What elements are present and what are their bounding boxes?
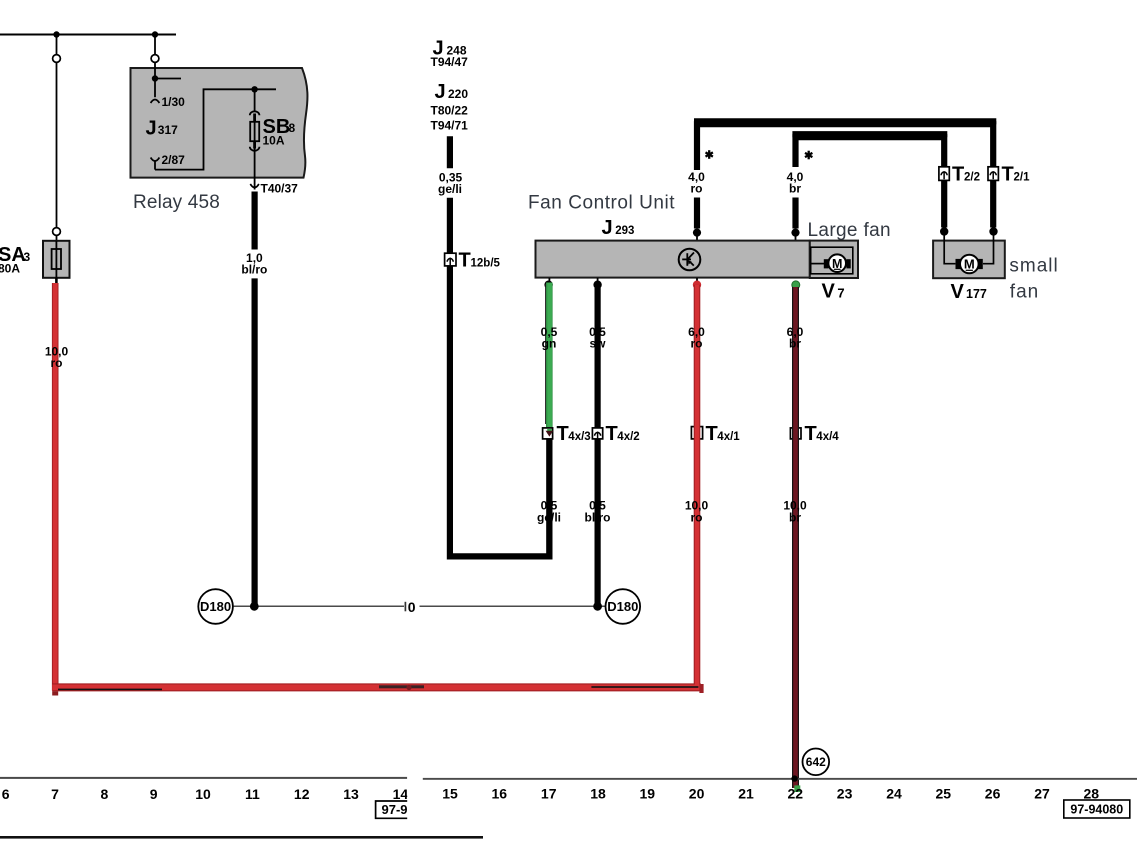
svg-text:T: T bbox=[1002, 164, 1014, 186]
node: ro terminal bbox=[693, 229, 701, 237]
contact 2/87 bbox=[151, 158, 160, 162]
wire to motor bbox=[810, 263, 824, 265]
node: SB8 top junction bbox=[251, 86, 257, 92]
svg-text:2/2: 2/2 bbox=[964, 172, 980, 184]
ground D180 left bbox=[198, 589, 233, 624]
node: small fan right terminal bbox=[989, 227, 997, 235]
svg-text:T94/71: T94/71 bbox=[431, 119, 469, 133]
symbol K (thermo control) bbox=[679, 249, 701, 271]
svg-text:bl/ro: bl/ro bbox=[585, 511, 611, 525]
svg-text:bl/ro: bl/ro bbox=[241, 263, 267, 277]
motor V7 bbox=[828, 254, 846, 272]
svg-text:24: 24 bbox=[886, 786, 902, 802]
svg-text:12b/5: 12b/5 bbox=[471, 258, 501, 270]
wire: SA3 bottom stub bbox=[55, 278, 58, 284]
wire: black line under red horizontal (left) bbox=[58, 689, 162, 691]
svg-text:ro: ro bbox=[691, 337, 703, 351]
terminal T40/37 bbox=[254, 178, 256, 190]
ruler numbers right bbox=[442, 786, 1099, 802]
wire 0,5 gn (green) bbox=[548, 278, 550, 281]
small fan box V177 bbox=[933, 241, 1005, 279]
svg-text:sw: sw bbox=[589, 337, 606, 351]
svg-text:8: 8 bbox=[289, 121, 296, 135]
svg-text:11: 11 bbox=[245, 786, 260, 802]
connector T2/1 bbox=[988, 167, 998, 181]
fuse SA3 box bbox=[43, 241, 70, 278]
svg-text:br: br bbox=[789, 337, 801, 351]
wire 0,5 sw (black) bbox=[597, 278, 599, 281]
svg-text:4x/3: 4x/3 bbox=[568, 431, 590, 443]
svg-text:T80/22: T80/22 bbox=[431, 104, 469, 118]
svg-text:D180: D180 bbox=[607, 599, 638, 614]
svg-text:T40/37: T40/37 bbox=[261, 182, 299, 196]
motor V177 bbox=[960, 255, 979, 274]
wire 0,5 ge/li (below T4x/3) bbox=[546, 439, 552, 556]
relay J317 box bbox=[131, 68, 308, 178]
svg-text:M: M bbox=[964, 257, 975, 272]
fuse SB8 bbox=[254, 89, 256, 112]
svg-text:7: 7 bbox=[51, 786, 59, 802]
ruler line left page bbox=[0, 777, 407, 779]
svg-text:317: 317 bbox=[158, 123, 178, 137]
svg-text:17: 17 bbox=[541, 786, 557, 802]
terminal circle above SA3 bbox=[53, 228, 61, 236]
svg-text:gn: gn bbox=[542, 337, 557, 351]
svg-text:T: T bbox=[459, 250, 471, 272]
connector T4x/3 bbox=[543, 428, 553, 439]
ground line left bbox=[234, 605, 404, 607]
wire 1,0 bl/ro lower bbox=[252, 278, 258, 604]
svg-text:25: 25 bbox=[936, 786, 952, 802]
motor brushes bbox=[956, 259, 962, 269]
svg-text:4x/2: 4x/2 bbox=[617, 431, 639, 443]
svg-text:10: 10 bbox=[195, 786, 211, 802]
wire 0,35 ge/li lower + corner to T4x/3 branch bbox=[450, 266, 550, 557]
svg-text:4x/4: 4x/4 bbox=[816, 431, 839, 443]
svg-text:13: 13 bbox=[343, 786, 359, 802]
node: relay top junction bbox=[152, 75, 158, 81]
asterisk (ro) bbox=[706, 150, 713, 159]
svg-text:22: 22 bbox=[788, 786, 804, 802]
page ref box left (cut by seam) bbox=[376, 801, 414, 818]
wire 6,0 ro / 10,0 ro (red) bbox=[696, 278, 698, 281]
svg-text:0: 0 bbox=[408, 599, 416, 615]
svg-text:small: small bbox=[1009, 256, 1058, 277]
wire: circle to SA3 box bbox=[56, 235, 58, 241]
svg-text:T94/47: T94/47 bbox=[431, 55, 469, 69]
svg-text:J: J bbox=[146, 118, 157, 140]
svg-text:V: V bbox=[951, 281, 965, 303]
contact 1/30 bbox=[151, 100, 160, 104]
node: junction on rail left bbox=[53, 31, 59, 37]
svg-text:15: 15 bbox=[442, 786, 458, 802]
svg-text:V: V bbox=[822, 281, 836, 303]
svg-text:T: T bbox=[557, 423, 569, 445]
ground line right bbox=[420, 605, 606, 607]
wire: 2/87 to SB8 rail bbox=[155, 89, 276, 169]
connector T12b/5 bbox=[445, 253, 456, 266]
svg-text:D180: D180 bbox=[200, 599, 231, 614]
wire: black line under red horizontal (right) bbox=[379, 685, 424, 688]
svg-text:12: 12 bbox=[294, 786, 310, 802]
svg-text:J: J bbox=[435, 81, 446, 103]
svg-text:Relay 458: Relay 458 bbox=[133, 192, 220, 213]
svg-text:9: 9 bbox=[150, 786, 158, 802]
connector T4x/1 bbox=[691, 427, 702, 439]
svg-text:27: 27 bbox=[1034, 786, 1050, 802]
wire 0,5 bl/ro (below T4x/2) bbox=[594, 439, 600, 604]
wire: right pin into fan bbox=[983, 233, 994, 264]
svg-text:1/30: 1/30 bbox=[162, 95, 186, 109]
wire 4,0 br (with top run to T2/2) bbox=[796, 137, 945, 167]
bottom border bbox=[0, 836, 483, 839]
node: 0,5 bl/ro wire to ground line bbox=[593, 602, 602, 611]
wire: red stub below corner bbox=[52, 691, 58, 695]
connector T4x/2 bbox=[592, 428, 602, 439]
connector T4x/4 bbox=[790, 428, 801, 439]
svg-text:21: 21 bbox=[738, 786, 754, 802]
svg-text:14: 14 bbox=[393, 786, 409, 802]
svg-text:23: 23 bbox=[837, 786, 853, 802]
svg-text:fan: fan bbox=[1010, 281, 1039, 302]
page ref box right bbox=[1064, 800, 1130, 818]
asterisk (br) bbox=[805, 151, 812, 160]
wire: green tip at bottom bbox=[794, 785, 800, 792]
wire: node to contact 1/30 bbox=[154, 79, 156, 98]
wire 1,0 bl/ro upper bbox=[252, 192, 258, 250]
svg-text:26: 26 bbox=[985, 786, 1001, 802]
large fan motor box bbox=[810, 241, 858, 278]
svg-text:2/87: 2/87 bbox=[162, 153, 186, 167]
page seam (white gap) bbox=[407, 772, 422, 827]
wire: into relay bbox=[154, 62, 156, 78]
svg-text:ro: ro bbox=[51, 356, 63, 370]
node: br wire crossing ruler bbox=[791, 775, 797, 781]
svg-text:642: 642 bbox=[806, 755, 826, 769]
wire 6,0 br / 10,0 br (maroon) bbox=[792, 281, 800, 289]
wire 10,0 ro vertical (red) bbox=[52, 283, 59, 691]
ruler numbers left bbox=[2, 786, 409, 802]
svg-text:3: 3 bbox=[24, 250, 31, 264]
svg-text:2/1: 2/1 bbox=[1014, 172, 1031, 184]
circle 642 bbox=[803, 749, 830, 776]
svg-text:br: br bbox=[789, 511, 801, 525]
wire: drop to relay bbox=[154, 35, 156, 55]
svg-text:6: 6 bbox=[2, 786, 10, 802]
node: small fan left terminal bbox=[940, 227, 948, 235]
node: dark blob on red wire bbox=[406, 685, 411, 690]
svg-text:97-94080: 97-94080 bbox=[1070, 803, 1123, 817]
svg-text:19: 19 bbox=[640, 786, 656, 802]
wire: drop to SA3 lower bbox=[56, 62, 58, 227]
wire 10,0 ro horizontal (red) bbox=[52, 683, 701, 691]
wire 4,0 ro (with top run to T2/1) bbox=[697, 124, 993, 170]
svg-text:T: T bbox=[606, 423, 618, 445]
svg-text:10A: 10A bbox=[263, 134, 285, 148]
wire 0,35 ge/li middle bbox=[447, 198, 453, 253]
ruler line right page bbox=[423, 778, 1137, 780]
svg-text:220: 220 bbox=[448, 87, 468, 101]
node: br terminal bbox=[791, 229, 799, 237]
tick at seam bbox=[404, 602, 406, 612]
svg-text:16: 16 bbox=[492, 786, 508, 802]
wire: black line over red horizontal (to corner) bbox=[591, 686, 698, 688]
svg-text:Large fan: Large fan bbox=[808, 220, 891, 241]
node: junction on rail right bbox=[152, 31, 158, 37]
svg-text:ro: ro bbox=[691, 182, 703, 196]
terminal circle on left drop bbox=[53, 55, 61, 63]
inner rect bbox=[811, 247, 853, 274]
svg-text:293: 293 bbox=[615, 225, 634, 237]
svg-text:J: J bbox=[602, 217, 613, 239]
wire: short branch right of node bbox=[155, 78, 181, 80]
wire 0,35 ge/li upper bbox=[447, 136, 453, 168]
svg-text:20: 20 bbox=[689, 786, 705, 802]
wire: drop to SA3 upper bbox=[56, 35, 58, 55]
svg-text:7: 7 bbox=[837, 286, 844, 301]
wire: top supply rail bbox=[0, 34, 176, 36]
svg-text:18: 18 bbox=[590, 786, 606, 802]
svg-text:4x/1: 4x/1 bbox=[717, 431, 740, 443]
svg-text:br: br bbox=[789, 182, 801, 196]
svg-text:ge/li: ge/li bbox=[537, 511, 561, 525]
connector T2/2 bbox=[939, 167, 949, 181]
svg-text:ge/li: ge/li bbox=[438, 182, 462, 196]
control unit J293 box bbox=[536, 241, 810, 278]
node: bl/ro wire to ground line bbox=[250, 602, 259, 611]
svg-text:T: T bbox=[952, 164, 964, 186]
svg-text:8: 8 bbox=[101, 786, 109, 802]
wire: red stub right corner bbox=[699, 684, 703, 693]
svg-text:ro: ro bbox=[691, 511, 703, 525]
terminal circle above relay bbox=[151, 55, 159, 63]
svg-text:T: T bbox=[805, 423, 817, 445]
svg-text:80A: 80A bbox=[0, 262, 20, 276]
motor brushes bbox=[824, 259, 829, 268]
svg-text:177: 177 bbox=[966, 287, 987, 301]
svg-text:T: T bbox=[706, 423, 718, 445]
wire: left pin into fan bbox=[944, 233, 955, 264]
ground D180 right bbox=[606, 589, 641, 624]
svg-text:Fan Control Unit: Fan Control Unit bbox=[528, 193, 675, 214]
